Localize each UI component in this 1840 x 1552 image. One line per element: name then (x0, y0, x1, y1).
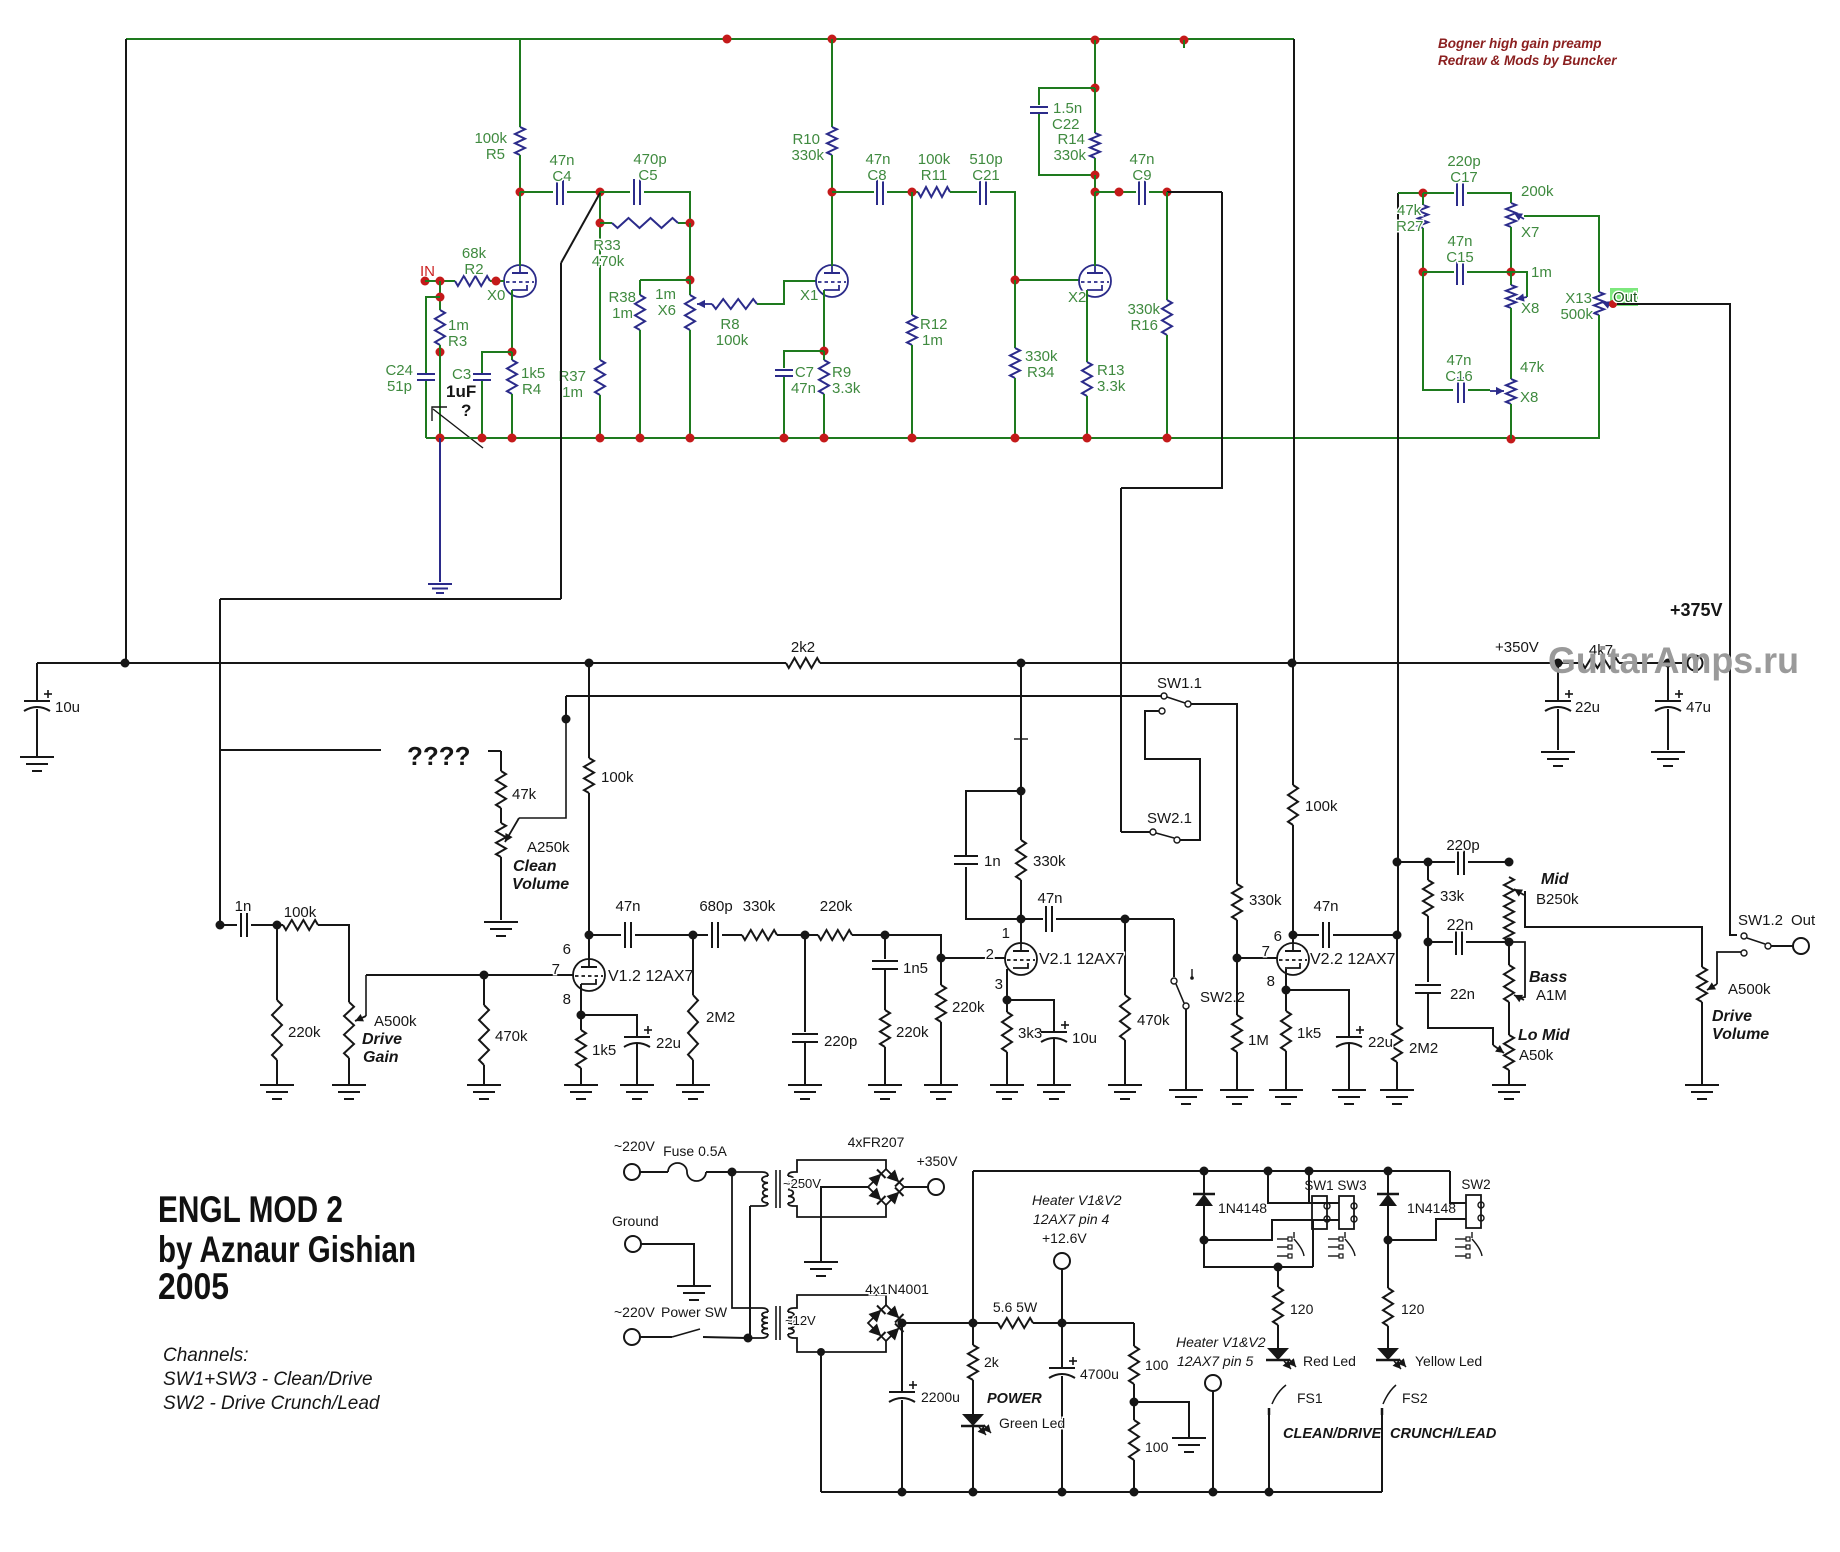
node C4/C5 junction (596, 188, 605, 197)
resistor R13 (1082, 362, 1092, 396)
resistor R27 (1422, 193, 1424, 205)
resistor 470k V2.1 plate load (1124, 919, 1126, 995)
ground 220k grid leak (924, 1084, 958, 1086)
capacitor 220p tone (1457, 849, 1459, 875)
wire bridge minus to ground (821, 1187, 868, 1261)
svg-text:100k: 100k (716, 332, 749, 349)
node +350V rail junctions (121, 659, 130, 668)
svg-text:1M: 1M (1248, 1032, 1269, 1049)
svg-text:1N4148: 1N4148 (1218, 1200, 1267, 1216)
svg-text:12AX7 pin 5: 12AX7 pin 5 (1177, 1353, 1253, 1369)
node red led branch (1274, 1263, 1283, 1272)
wire C9 output to x=1222 (to lower section) (1167, 191, 1222, 193)
ground bridge1 (804, 1261, 838, 1263)
resistor R37 lower lead (599, 395, 601, 438)
wire C3 link (482, 352, 512, 373)
triode X2 (1079, 265, 1111, 297)
wire plate row to 47n (589, 934, 621, 936)
svg-text:V2.1 12AX7: V2.1 12AX7 (1039, 951, 1125, 968)
svg-text:680p: 680p (699, 898, 732, 915)
svg-text:Drive: Drive (1712, 1008, 1752, 1025)
resistor 220k below 1n5 (884, 969, 886, 1010)
node R3 top junction (436, 277, 445, 286)
svg-text:R8: R8 (720, 316, 739, 333)
svg-text:200k: 200k (1521, 183, 1554, 200)
capacitor C5 (633, 179, 635, 205)
ground 1M (1220, 1089, 1254, 1091)
wire left B+ feed down to +350V rail (125, 39, 127, 663)
svg-text:68k: 68k (462, 245, 487, 262)
ground 220p (788, 1084, 822, 1086)
svg-text:10u: 10u (55, 699, 80, 716)
svg-text:R3: R3 (448, 333, 467, 350)
transformer T1 core (775, 1170, 777, 1208)
svg-text:47n: 47n (1037, 890, 1062, 907)
svg-text:1n: 1n (235, 898, 252, 915)
resistor 4k7 (1582, 658, 1619, 668)
svg-text:47n: 47n (791, 380, 816, 397)
svg-text:22n: 22n (1450, 986, 1475, 1003)
svg-text:A500k: A500k (374, 1013, 417, 1030)
resistor 100 upper (1129, 1346, 1139, 1384)
svg-text:GuitarAmps.ru: GuitarAmps.ru (1548, 640, 1799, 681)
wire SW1 coil bottom (1204, 1220, 1312, 1240)
wire V2.2 cathode (1285, 969, 1287, 990)
node cathode junction V2.1 (1003, 996, 1012, 1005)
wire T2 secondary top to bridge2 (788, 1295, 886, 1312)
node 470k junction (480, 971, 489, 980)
svg-text:1k5: 1k5 (1297, 1025, 1321, 1042)
svg-text:3.3k: 3.3k (832, 380, 861, 397)
wire T1 secondary bottom to bridge (788, 1203, 886, 1217)
svg-text:100k: 100k (601, 769, 634, 786)
transformer T2 primary coil (762, 1312, 768, 1334)
wire to V2.1 grid corner (852, 935, 941, 958)
transformer T1 primary coil (762, 1176, 768, 1203)
svg-text:Power SW: Power SW (661, 1304, 728, 1320)
resistor 5.6 5W (998, 1318, 1033, 1328)
wire C8 to R11 (887, 191, 918, 193)
wire to X2 plate node (1094, 175, 1096, 192)
svg-text:47n: 47n (1129, 151, 1154, 168)
capacitor 680p (693, 934, 708, 936)
svg-text:3.3k: 3.3k (1097, 378, 1126, 395)
node 220p junction (801, 931, 810, 940)
svg-text:Bass: Bass (1529, 969, 1567, 986)
svg-text:Ground: Ground (612, 1213, 659, 1229)
led Red Led (1277, 1325, 1279, 1348)
node V2.1 grid/220k junction (937, 954, 946, 963)
svg-text:8: 8 (1267, 973, 1275, 990)
wire Drive Gain wiper to V1.2 grid (366, 974, 574, 976)
svg-text:FS2: FS2 (1402, 1390, 1428, 1406)
wire fuse to junction (706, 1171, 732, 1173)
capacitor 10u (36, 663, 38, 701)
node V2.1 plate (1017, 915, 1026, 924)
svg-text:R14: R14 (1057, 131, 1085, 148)
resistor 220k V2.1 grid leak (940, 958, 942, 985)
capacitor 47n V2.1 out (1021, 918, 1043, 920)
svg-text:220k: 220k (896, 1024, 929, 1041)
svg-text:1m: 1m (562, 384, 583, 401)
wire C24 branch (426, 297, 440, 373)
wire right B+ drop x=1294 (1293, 39, 1295, 663)
resistor R12 (911, 192, 913, 315)
wire SW1 coil top (1268, 1171, 1312, 1203)
svg-text:10u: 10u (1072, 1030, 1097, 1047)
svg-text:1.5n: 1.5n (1053, 100, 1082, 117)
svg-text:Drive: Drive (362, 1031, 402, 1048)
node V1.2 plate junction (585, 931, 594, 940)
bridge rectifier 4x1N4001 (868, 1305, 904, 1341)
wire C15/C16/R27 input vertical x=1398 (1397, 193, 1399, 862)
fuse 0.5A (668, 1163, 706, 1181)
svg-text:22u: 22u (656, 1035, 681, 1052)
svg-text:X0: X0 (487, 287, 505, 304)
svg-text:22u: 22u (1368, 1034, 1393, 1051)
switch FS1 (1272, 1385, 1286, 1404)
svg-text:Yellow Led: Yellow Led (1415, 1353, 1482, 1369)
node Bass top (1505, 938, 1514, 947)
node X6 top junction (686, 276, 695, 285)
node relay rail dots (1200, 1167, 1209, 1176)
wire y=599 link (220, 598, 561, 600)
resistor R38 (635, 295, 645, 330)
wire plate node to C9 (1095, 191, 1136, 193)
wire X0 cathode lead (511, 290, 513, 352)
node 1n5 junction (881, 931, 890, 940)
capacitor 1n feedback (965, 867, 967, 919)
wire R3 branch (439, 281, 441, 310)
resistor R9 (823, 351, 825, 360)
svg-text:Heater V1&V2: Heater V1&V2 (1176, 1334, 1266, 1350)
wire C21 to X2 grid (990, 192, 1080, 280)
svg-text:120: 120 (1290, 1301, 1314, 1317)
node box top (1091, 84, 1100, 93)
wire X8a wiper tie loop (1511, 272, 1527, 297)
svg-text:A50k: A50k (1519, 1047, 1554, 1064)
svg-text:1uF: 1uF (446, 382, 476, 401)
svg-text:C21: C21 (972, 167, 1000, 184)
svg-text:????: ???? (407, 741, 471, 771)
resistor 47k clean (496, 771, 506, 808)
svg-text:C5: C5 (638, 167, 657, 184)
svg-text:2k2: 2k2 (791, 639, 815, 656)
svg-text:C9: C9 (1132, 167, 1151, 184)
wire plate node to C4 (520, 191, 553, 193)
svg-text:47n: 47n (549, 152, 574, 169)
transformer T2 core (775, 1306, 777, 1340)
svg-text:330k: 330k (1025, 348, 1058, 365)
svg-text:R27: R27 (1396, 218, 1424, 235)
wire ground stub below rail (439, 438, 441, 582)
svg-text:R2: R2 (464, 261, 483, 278)
node tone top (1393, 858, 1402, 867)
capacitor C3 (473, 373, 491, 375)
terminal ~220V line (624, 1164, 640, 1180)
resistor 1k5 V1.2 (580, 1015, 582, 1030)
wire R37 branch (595, 360, 605, 395)
node clean wiper junction (562, 715, 571, 724)
wire C22/R14 box top (1094, 40, 1096, 88)
ground 1k5 (564, 1084, 598, 1086)
node R12 top (908, 188, 917, 197)
svg-text:330k: 330k (1127, 301, 1160, 318)
node X0 grid (492, 277, 501, 286)
ground 10u (20, 756, 54, 758)
svg-text:~220V: ~220V (614, 1138, 656, 1154)
svg-text:R37: R37 (558, 368, 586, 385)
svg-text:X2: X2 (1068, 289, 1086, 306)
terminal +350V output (928, 1179, 944, 1195)
transformer T1 secondary coil (788, 1176, 794, 1203)
svg-text:4xFR207: 4xFR207 (848, 1134, 905, 1150)
svg-text:Mid: Mid (1541, 871, 1570, 888)
wire R10 to X1 plate (831, 155, 833, 266)
wire bridge2 minus riser to bottom rail (817, 1348, 825, 1356)
capacitor 22u V2.2 cathode (1286, 990, 1349, 1037)
wire SW2 coil bottom (1388, 1219, 1466, 1240)
node mains junction (728, 1168, 737, 1177)
svg-text:V2.2 12AX7: V2.2 12AX7 (1310, 951, 1396, 968)
svg-text:SW2.2: SW2.2 (1200, 989, 1245, 1006)
svg-text:R33: R33 (593, 237, 621, 254)
transformer T2 secondary coil (788, 1312, 794, 1334)
svg-text:R13: R13 (1097, 362, 1125, 379)
wire SW2.1 link S path (1159, 708, 1165, 714)
potentiometer X13 (1594, 292, 1604, 315)
svg-text:+12.6V: +12.6V (1042, 1230, 1087, 1246)
node Mid top (1505, 858, 1514, 867)
svg-text:330k: 330k (1033, 853, 1066, 870)
wire grid lead V2.1 (941, 957, 1006, 959)
wire to SW2.2 (1173, 919, 1175, 977)
wire Out to SW1.2 drop (1617, 304, 1737, 935)
capacitor 1n drive input (240, 913, 242, 937)
potentiometer Bass A1M (1504, 965, 1514, 1002)
node cathode junction V1.2 (577, 1011, 586, 1020)
wiper Clean Volume (519, 719, 566, 818)
svg-text:SW1+SW3 - Clean/Drive: SW1+SW3 - Clean/Drive (163, 1369, 373, 1390)
wire R8 to X1 grid (757, 281, 816, 304)
wire pin5 lead (1212, 1391, 1214, 1492)
capacitor C24 (417, 373, 435, 375)
node R27 top (1419, 189, 1428, 198)
node cathode junction V2.2 (1282, 986, 1291, 995)
wiper arrow Lo Mid (1493, 1045, 1504, 1053)
capacitor C16 (1457, 377, 1459, 403)
wire mains to T2 primary (732, 1172, 768, 1312)
wire clean wiper to SW1.1 (565, 696, 567, 719)
wire R5 top feed (519, 39, 521, 127)
wire to fuse (640, 1171, 668, 1173)
wire 1n row (220, 924, 237, 926)
svg-text:CLEAN/DRIVE: CLEAN/DRIVE (1283, 1426, 1383, 1442)
wire C3 to bus (481, 381, 483, 438)
node T2 primary bottom junction (744, 1334, 753, 1343)
relay SW1 contacts (1277, 1238, 1288, 1240)
svg-text:7: 7 (1262, 943, 1270, 960)
resistor R11 (918, 187, 950, 197)
ground 3k3 (990, 1084, 1024, 1086)
potentiometer X6 (689, 280, 691, 295)
svg-text:C17: C17 (1450, 169, 1478, 186)
tick mark on feed (1014, 738, 1028, 740)
node SW1 coil bottom (1200, 1236, 1209, 1245)
resistor R2 (455, 276, 490, 286)
node 2M2 junction (689, 931, 698, 940)
resistor 100 lower (1129, 1420, 1139, 1460)
resistor 2M2 V2.2 (1396, 935, 1398, 1025)
svg-text:1m: 1m (448, 317, 469, 334)
potentiometer A250k Clean Volume (500, 808, 502, 823)
terminal +375V circle (1688, 656, 1703, 671)
svg-text:500k: 500k (1560, 306, 1593, 323)
svg-text:+350V: +350V (1495, 639, 1539, 656)
ground chassis (677, 1285, 711, 1287)
svg-text:1m: 1m (1531, 264, 1552, 281)
svg-text:47n: 47n (1313, 898, 1338, 915)
wire 100k plate feed x=589 (588, 663, 590, 758)
svg-text:100k: 100k (918, 151, 951, 168)
svg-text:Redraw & Mods by Buncker: Redraw & Mods by Buncker (1438, 53, 1617, 68)
svg-text:47n: 47n (1446, 352, 1471, 369)
wire to T1 primary (732, 1172, 768, 1176)
potentiometer X8 lower (1506, 379, 1516, 404)
resistor 120 red (1277, 1267, 1279, 1287)
wire R10 top feed (831, 39, 833, 127)
node X2 plate junction (1091, 188, 1100, 197)
svg-text:22u: 22u (1575, 699, 1600, 716)
wire X8b bottom to rail (1510, 404, 1512, 439)
ground tone stack (1492, 1084, 1526, 1086)
svg-text:1m: 1m (612, 305, 633, 322)
svg-text:470p: 470p (633, 151, 666, 168)
node top bus junction dots (723, 35, 732, 44)
wire Clean Volume bottom (500, 857, 502, 920)
wire V1.2 cathode (580, 984, 582, 1015)
resistor R14 (1094, 88, 1096, 133)
resistor 2M2 (692, 935, 694, 995)
node 100k/220k junction (273, 921, 282, 930)
svg-text:330k: 330k (791, 147, 824, 164)
wire R2 to grid (490, 280, 504, 282)
triode X0 (504, 265, 536, 297)
capacitor 2200u (901, 1323, 903, 1392)
svg-text:Gain: Gain (363, 1049, 399, 1066)
wire C16 to X8b wiper (1468, 389, 1490, 391)
svg-text:2M2: 2M2 (706, 1009, 735, 1026)
wire upper primary return x=750 (749, 1206, 751, 1338)
node R33 left (596, 219, 605, 228)
svg-text:ENGL MOD 2: ENGL MOD 2 (158, 1189, 343, 1230)
svg-text:R34: R34 (1027, 364, 1055, 381)
ground 22u supply (1541, 751, 1575, 753)
wire SW1.1 throw to 330k (1191, 704, 1237, 884)
svg-text:X8: X8 (1521, 300, 1539, 317)
node X2 grid junction (1011, 276, 1020, 285)
ground 2M2 (676, 1084, 710, 1086)
relay SW1 (1312, 1196, 1327, 1229)
ground 10u V2.1 (1037, 1084, 1071, 1086)
svg-text:4x1N4001: 4x1N4001 (865, 1281, 929, 1297)
svg-text:1k5: 1k5 (521, 365, 545, 382)
node 330k top (1017, 787, 1026, 796)
wire R11 to C21 (950, 191, 977, 193)
svg-text:Green Led: Green Led (999, 1415, 1065, 1431)
resistor 100k drive (277, 924, 283, 926)
svg-text:1N4148: 1N4148 (1407, 1200, 1456, 1216)
svg-text:Volume: Volume (1712, 1026, 1769, 1043)
wire stub at x=1184 (1183, 40, 1185, 48)
wire C17 row (1423, 192, 1454, 194)
ground 470k (467, 1084, 501, 1086)
node bottom rail junctions (898, 1488, 907, 1497)
wire to +12.6V node (1033, 1322, 1134, 1324)
ground SW2.2 (1169, 1089, 1203, 1091)
resistor 2k (972, 1323, 974, 1345)
resistor R5 (515, 127, 525, 155)
svg-text:47n: 47n (615, 898, 640, 915)
svg-text:47n: 47n (865, 151, 890, 168)
node box bottom (1091, 171, 1100, 180)
wire bottom return rail (821, 1491, 1382, 1493)
svg-text:1n: 1n (984, 853, 1001, 870)
svg-text:470k: 470k (592, 253, 625, 270)
resistor R34 (1014, 280, 1016, 348)
node cathode/C7/R9 junction (820, 347, 829, 356)
svg-text:330k: 330k (743, 898, 776, 915)
svg-text:~12V: ~12V (785, 1313, 816, 1328)
diode 1N4148 SW2 (1387, 1171, 1389, 1194)
led Yellow Led (1387, 1326, 1389, 1348)
wire C7 link (784, 351, 824, 368)
wire X7 bottom to C15 node (1510, 227, 1512, 272)
potentiometer X7 (1506, 203, 1516, 227)
wire power sw to junction (703, 1337, 746, 1338)
wire X2 cathode (1086, 290, 1088, 362)
svg-text:R9: R9 (832, 364, 851, 381)
svg-text:100k: 100k (1305, 798, 1338, 815)
svg-text:2: 2 (986, 946, 994, 963)
svg-text:X7: X7 (1521, 224, 1539, 241)
svg-text:220p: 220p (824, 1033, 857, 1050)
wire R38/X6 top link (640, 279, 690, 281)
svg-text:?: ? (461, 401, 471, 420)
svg-text:SW2.1: SW2.1 (1147, 810, 1192, 827)
resistor 120 yellow (1387, 1240, 1389, 1288)
capacitor C17 (1456, 180, 1458, 206)
svg-text:C15: C15 (1446, 249, 1474, 266)
svg-text:330k: 330k (1053, 147, 1086, 164)
resistor 2k2 (786, 658, 820, 668)
wire Mid bottom to Bass (1508, 941, 1510, 965)
svg-text:1k5: 1k5 (592, 1042, 616, 1059)
svg-text:100k: 100k (474, 130, 507, 147)
svg-text:~250V: ~250V (783, 1176, 821, 1191)
svg-text:by Aznaur Gishian: by Aznaur Gishian (158, 1229, 416, 1270)
svg-text:SW1.1: SW1.1 (1157, 675, 1202, 692)
capacitor 22u supply (1557, 663, 1559, 701)
terminal heater pin5 (1205, 1375, 1221, 1391)
capacitor 22n shunt (1427, 942, 1429, 982)
wire C17 to X7 (1467, 193, 1511, 203)
wiper Drive Volume (1707, 984, 1717, 990)
node V2.2 plate (1289, 931, 1298, 940)
svg-text:100: 100 (1145, 1439, 1169, 1455)
wire to Out jack (1771, 945, 1793, 947)
wire heater terminal lead (1061, 1269, 1063, 1323)
